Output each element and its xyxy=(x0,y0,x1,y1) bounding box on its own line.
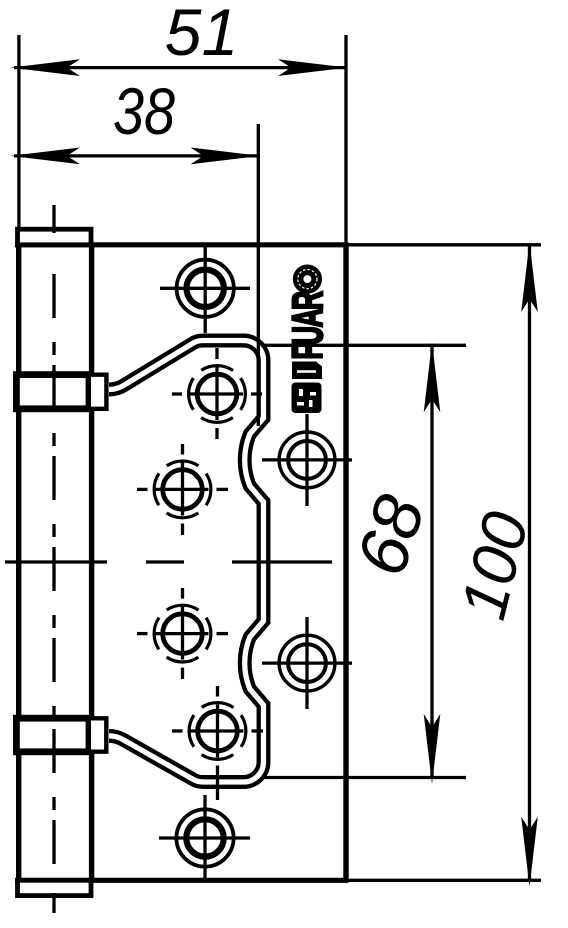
plate bottom edge extension xyxy=(349,879,542,882)
arrow 38 left xyxy=(11,148,81,165)
logo letters FUAR (reading upward) xyxy=(285,291,332,359)
logo O donut xyxy=(298,270,317,289)
barrel left edge xyxy=(16,245,21,881)
hole countersunk (182.5,489.4) xyxy=(137,444,228,535)
dimension line 38 xyxy=(14,154,259,157)
arrow 51 right xyxy=(278,59,348,76)
knuckle bottom tab xyxy=(91,718,106,751)
barrel centerline bottom tick xyxy=(52,893,55,913)
svg-text:68: 68 xyxy=(341,486,439,584)
barrel right edge xyxy=(89,245,94,881)
hole right upper plain (307,460) xyxy=(262,414,352,506)
hole right lower plain (307,663) xyxy=(262,617,352,709)
logo emblem block 2 xyxy=(292,383,322,414)
barrel centerline top tick xyxy=(52,205,55,233)
svg-text:51: 51 xyxy=(165,0,238,69)
plate top edge xyxy=(15,242,349,247)
arrow 38 right xyxy=(191,148,261,165)
hole countersunk (182.5,633.6) xyxy=(137,588,228,679)
svg-text:38: 38 xyxy=(113,74,175,148)
hole bottom plain (205,838) xyxy=(159,795,250,880)
barrel bottom cap xyxy=(18,880,92,895)
extension line mid xyxy=(257,124,260,426)
FUARO logo xyxy=(285,270,332,414)
barrel centerline xyxy=(52,274,55,880)
arrow 68 up xyxy=(424,342,441,412)
arrow 68 down xyxy=(424,714,441,784)
arrow 51 left xyxy=(11,59,81,76)
knuckle bottom xyxy=(16,718,89,752)
plate bottom edge xyxy=(15,878,349,883)
dimension line 100 xyxy=(528,245,531,881)
svg-text:FUAR: FUAR xyxy=(285,291,332,359)
plate top edge extension xyxy=(349,243,542,246)
hole countersunk (217,394) xyxy=(172,348,262,439)
extension line left xyxy=(17,35,20,229)
extension lines for 68 xyxy=(262,344,466,347)
plate right edge xyxy=(343,245,348,881)
knuckle top xyxy=(16,375,89,409)
hole countersunk (217.5,731) xyxy=(172,686,263,800)
barrel top cap xyxy=(18,229,92,245)
logo emblem block 1 xyxy=(292,362,322,380)
hole top plain (205,288) xyxy=(160,244,250,333)
arrow 100 down xyxy=(521,817,538,887)
dimension line 68 xyxy=(430,345,433,777)
horizontal center axis xyxy=(5,560,107,563)
arrow 100 up xyxy=(521,242,538,312)
extension line right xyxy=(344,35,347,245)
leaf outline (double line) xyxy=(109,340,264,782)
knuckle top tab xyxy=(91,375,106,409)
dimension line 51 xyxy=(14,66,346,69)
